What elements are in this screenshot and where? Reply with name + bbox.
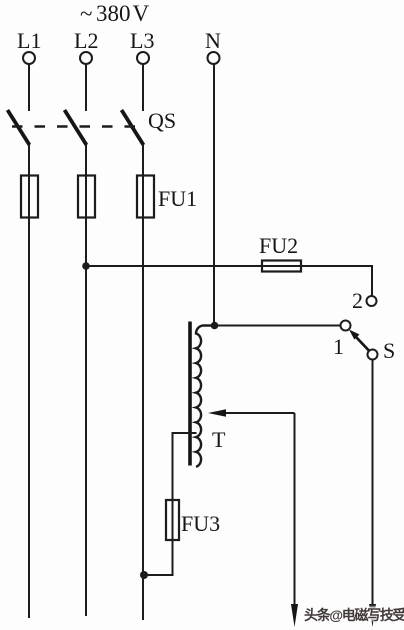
transformer T core bar: [188, 322, 192, 466]
wire S down: [372, 360, 374, 607]
node junction N transformer top: [211, 322, 219, 330]
fuse FU2: [262, 261, 301, 272]
terminal L3: [137, 52, 149, 64]
svg-text:L1: L1: [17, 28, 41, 53]
terminal L1: [23, 52, 35, 64]
svg-text:FU1: FU1: [158, 186, 197, 211]
svg-text:T: T: [212, 427, 226, 452]
transformer T winding: [196, 326, 215, 467]
node junction L2 to FU2: [82, 262, 90, 270]
arrowhead tap into winding: [208, 409, 226, 417]
wire through FU3: [172, 500, 174, 575]
svg-text:2: 2: [352, 288, 363, 313]
fuse FU1 pole2: [78, 176, 95, 218]
fuse FU1 pole1: [21, 176, 38, 218]
node junction L3 return: [140, 571, 148, 579]
wire tap arrow horizontal: [224, 412, 295, 414]
svg-text:N: N: [205, 28, 221, 53]
wire FU3 to L3 junction: [143, 574, 174, 576]
terminal N: [208, 52, 220, 64]
wire L2 vertical run: [85, 217, 87, 616]
svg-text:QS: QS: [148, 108, 176, 133]
wire L2 blade to fuse: [85, 144, 87, 218]
svg-text:1: 1: [333, 334, 344, 359]
wire tap down: [294, 413, 296, 606]
wire L1 drop to switch: [28, 64, 30, 111]
wire FU2 horizontal: [86, 265, 372, 267]
wire L3 blade to fuse: [142, 144, 144, 218]
svg-text:L2: L2: [74, 28, 98, 53]
switch QS blade pole3: [122, 110, 144, 145]
watermark: [304, 605, 404, 625]
wire L2 drop to switch: [85, 64, 87, 111]
switch QS blade pole1: [8, 110, 30, 145]
svg-text:FU2: FU2: [259, 233, 298, 258]
switch S pole contact: [368, 350, 378, 360]
terminal L2: [80, 52, 92, 64]
contact 2: [367, 296, 377, 306]
switch QS blade pole2: [65, 110, 87, 145]
svg-text:380V: 380V: [96, 1, 150, 26]
svg-text:~: ~: [80, 1, 92, 26]
svg-text:L3: L3: [130, 28, 154, 53]
fuse FU3: [166, 500, 179, 540]
svg-text:S: S: [383, 338, 395, 363]
wire to contact 2: [371, 265, 373, 296]
arrow output left: [291, 604, 298, 627]
fuse FU1 pole3: [137, 176, 154, 218]
svg-text:FU3: FU3: [181, 511, 220, 536]
wire N drop to transformer junction: [213, 64, 215, 326]
wire L3 drop to switch: [142, 64, 144, 111]
wire L3 vertical run: [142, 217, 144, 620]
switch QS linkage dashed: [12, 125, 147, 127]
wire L1 vertical run: [28, 217, 30, 618]
wire winding bottom tap to FU3: [173, 433, 197, 501]
arrow output right: [369, 604, 376, 627]
switch S blade with arrow: [349, 330, 369, 351]
contact 1: [341, 321, 351, 331]
wire junction to contact 1: [214, 325, 341, 327]
wire L1 blade to fuse: [28, 144, 30, 218]
